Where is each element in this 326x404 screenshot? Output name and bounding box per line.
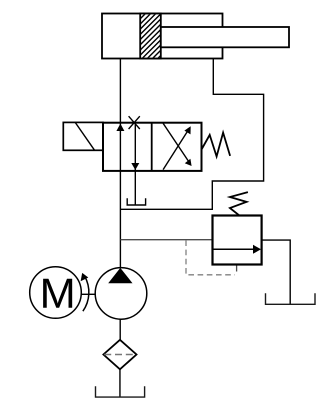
filter F1 diamond — [103, 340, 136, 370]
cylinder piston (hatched) — [130, 0, 165, 86]
motor letter M — [43, 279, 72, 308]
cylinder C1 body — [102, 14, 223, 59]
relief valve outlet wire to tank — [262, 240, 291, 304]
relief valve spring (top) — [230, 192, 248, 215]
electric motor M1 circle — [30, 267, 82, 319]
wire pressure line from valve P port to pump — [119, 171, 121, 269]
solenoid actuator box — [63, 122, 103, 150]
wire from cylinder rod port down/right/down to pressure line — [120, 59, 263, 210]
right position: crossed arrows — [163, 123, 192, 169]
cylinder piston rod — [161, 27, 289, 47]
relief valve flow arrow — [213, 245, 262, 254]
rotation direction arc with arrowhead — [81, 273, 89, 311]
motor shaft — [81, 293, 94, 295]
valve return spring — [202, 133, 231, 157]
tank symbol under valve — [127, 198, 145, 205]
relief valve RV1 body — [213, 216, 262, 265]
wire pump suction to filter — [119, 319, 121, 340]
tank symbol under relief valve — [266, 293, 316, 304]
pump P1 circle — [95, 268, 147, 320]
valve T port line — [134, 171, 136, 205]
pilot line (gray) from pressure line to relief valve inlet — [120, 239, 212, 241]
directional valve V1 body (two positions) — [103, 122, 202, 170]
left position: B->T line with down arrow — [131, 122, 139, 170]
relief valve drain stub (gray) — [236, 265, 238, 272]
tank symbol under filter — [96, 386, 145, 397]
closed-port X on valve top port — [129, 116, 140, 129]
left position: P->A line with up arrow — [116, 123, 124, 171]
pilot control dashed line (gray) — [186, 240, 235, 274]
filter element dashed line (gray) — [104, 354, 136, 356]
wire from cylinder cap port to valve port A — [119, 59, 121, 124]
wire filter to tank — [119, 369, 121, 396]
pump flow triangle — [108, 268, 132, 283]
